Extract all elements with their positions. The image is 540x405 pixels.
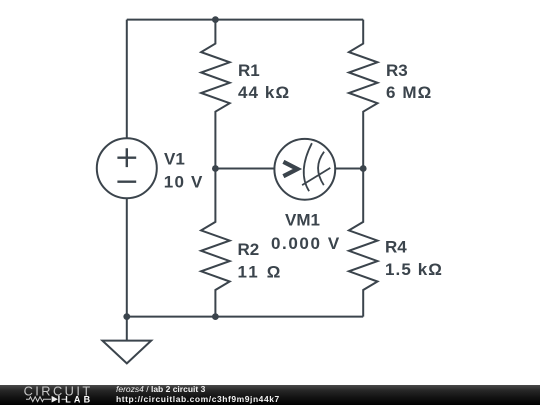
label R3 6 MΩ: [386, 61, 432, 102]
node junction bottom-left (V1/ground/wire): [123, 313, 130, 320]
svg-text:LAB: LAB: [65, 395, 93, 405]
svg-text:VM1: VM1: [285, 210, 320, 229]
node junction bottom (R2 bottom): [212, 313, 219, 320]
ground: [102, 317, 151, 364]
footer bar: [0, 385, 540, 405]
voltage source V1: [97, 138, 157, 198]
svg-text:44 kΩ: 44 kΩ: [238, 83, 290, 102]
node junction top (R1/V1/R3): [212, 16, 219, 23]
footer url text: [116, 395, 280, 404]
svg-text:0.000 V: 0.000 V: [271, 234, 341, 253]
svg-text:10 V: 10 V: [164, 173, 204, 192]
CircuitLab logo: [0, 385, 110, 405]
wire bottom horizontal net: [127, 316, 363, 318]
node junction mid-right (R3/R4/VM1): [360, 165, 367, 172]
label VM1 0.000 V: [271, 210, 341, 253]
svg-text:R4: R4: [385, 238, 407, 257]
resistor R4: [349, 169, 378, 317]
wire middle right: [335, 168, 363, 170]
label R4 1.5 kΩ: [385, 238, 443, 280]
svg-text:11 Ω: 11 Ω: [238, 263, 283, 282]
wire middle left: [215, 168, 274, 170]
resistor R1: [201, 20, 230, 169]
svg-text:V1: V1: [164, 149, 185, 168]
svg-text:R2: R2: [238, 240, 260, 259]
resistor R2: [201, 169, 230, 317]
svg-text:1.5 kΩ: 1.5 kΩ: [385, 260, 443, 279]
label R1 44 kΩ: [238, 61, 290, 102]
svg-text:6 MΩ: 6 MΩ: [386, 83, 432, 102]
label R2 11 Ω: [238, 240, 283, 282]
wire left vertical (V1 bottom lead): [126, 198, 128, 316]
wire left vertical (V1 top lead): [126, 20, 128, 139]
wire top horizontal net: [127, 19, 363, 21]
footer title text: [116, 385, 205, 394]
svg-text:R3: R3: [386, 61, 408, 80]
voltmeter VM1: [274, 139, 335, 200]
node junction mid-left (R1/R2/VM1): [212, 165, 219, 172]
label V1: [164, 149, 204, 191]
resistor R3: [349, 20, 378, 169]
svg-text:R1: R1: [238, 61, 260, 80]
